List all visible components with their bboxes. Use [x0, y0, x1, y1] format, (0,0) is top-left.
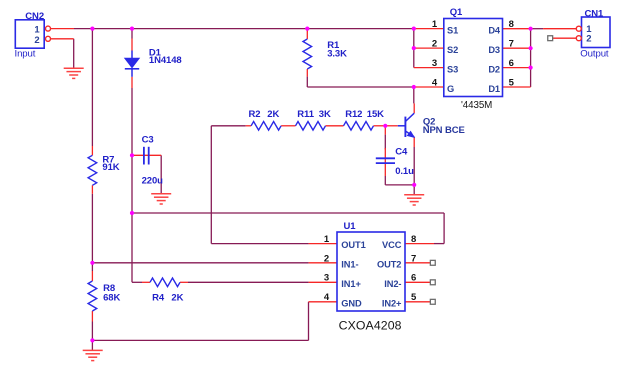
- svg-text:15K: 15K: [367, 109, 384, 120]
- svg-text:D4: D4: [488, 25, 501, 35]
- svg-text:0.1u: 0.1u: [395, 166, 414, 177]
- svg-text:3.3K: 3.3K: [327, 49, 347, 60]
- svg-text:CN1: CN1: [585, 9, 605, 20]
- svg-text:Input: Input: [15, 48, 36, 59]
- svg-text:68K: 68K: [103, 292, 120, 303]
- svg-text:CN2: CN2: [25, 11, 44, 22]
- svg-text:GND: GND: [341, 298, 362, 308]
- svg-text:CXOA4208: CXOA4208: [339, 319, 402, 333]
- svg-text:1: 1: [34, 25, 40, 36]
- svg-text:3: 3: [324, 273, 329, 284]
- svg-text:VCC: VCC: [382, 240, 402, 250]
- svg-text:1: 1: [324, 234, 330, 245]
- svg-text:IN2-: IN2-: [384, 279, 401, 289]
- svg-text:R11: R11: [297, 109, 314, 120]
- svg-text:7: 7: [411, 253, 416, 264]
- svg-text:OUT2: OUT2: [377, 260, 401, 270]
- svg-text:D3: D3: [488, 45, 500, 55]
- svg-text:D1: D1: [488, 84, 500, 94]
- svg-text:R2: R2: [249, 109, 261, 120]
- svg-text:2: 2: [34, 35, 39, 46]
- svg-text:IN1+: IN1+: [341, 279, 361, 289]
- svg-text:8: 8: [509, 19, 514, 30]
- svg-text:6: 6: [509, 58, 514, 69]
- svg-text:C3: C3: [142, 134, 154, 145]
- svg-text:2: 2: [324, 253, 329, 264]
- svg-text:R4: R4: [152, 293, 165, 304]
- svg-text:8: 8: [411, 234, 416, 245]
- svg-text:91K: 91K: [102, 162, 119, 173]
- svg-text:3K: 3K: [319, 109, 331, 120]
- svg-text:S2: S2: [447, 45, 458, 55]
- svg-text:220u: 220u: [142, 176, 164, 187]
- svg-text:D2: D2: [488, 64, 500, 74]
- svg-text:6: 6: [411, 273, 416, 284]
- svg-text:S3: S3: [447, 64, 458, 74]
- svg-text:4: 4: [324, 292, 330, 303]
- svg-text:R12: R12: [345, 109, 362, 120]
- svg-text:1N4148: 1N4148: [149, 55, 182, 66]
- svg-text:2: 2: [432, 39, 437, 50]
- svg-text:Output: Output: [580, 49, 609, 60]
- svg-text:5: 5: [411, 292, 417, 303]
- svg-text:Q1: Q1: [450, 7, 463, 18]
- svg-text:G: G: [447, 84, 454, 94]
- svg-text:IN2+: IN2+: [382, 298, 402, 308]
- svg-text:4: 4: [432, 77, 438, 88]
- svg-text:7: 7: [509, 39, 514, 50]
- svg-text:IN1-: IN1-: [341, 260, 358, 270]
- svg-text:5: 5: [509, 77, 515, 88]
- svg-text:2K: 2K: [267, 109, 279, 120]
- svg-text:OUT1: OUT1: [341, 240, 365, 250]
- svg-text:'4435M: '4435M: [461, 100, 492, 111]
- svg-text:U1: U1: [344, 221, 357, 232]
- svg-text:2K: 2K: [171, 293, 183, 304]
- svg-text:NPN BCE: NPN BCE: [423, 125, 465, 136]
- svg-text:1: 1: [432, 19, 438, 30]
- svg-text:2: 2: [586, 33, 591, 44]
- svg-text:3: 3: [432, 58, 437, 69]
- svg-text:S1: S1: [447, 25, 458, 35]
- svg-text:C4: C4: [395, 147, 408, 158]
